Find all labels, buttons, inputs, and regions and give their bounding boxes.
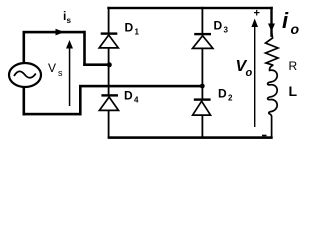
wire right rail upper xyxy=(202,7,204,35)
wire source left vertical bottom xyxy=(23,87,26,116)
wire right rail bottom xyxy=(202,115,204,139)
voltage arrow Vo xyxy=(251,19,258,128)
diode D1 xyxy=(99,32,118,48)
wire bottom rail xyxy=(108,136,273,139)
wire left rail D1 to node A xyxy=(108,48,110,65)
wire horizontal crossover to node B xyxy=(79,85,203,88)
wire top rail xyxy=(107,7,272,9)
wire right rail node B to D2 xyxy=(202,86,204,99)
node A junction dot xyxy=(107,62,112,67)
wire vertical up from bottom to cross wire xyxy=(79,85,82,115)
diode D3 xyxy=(193,33,213,49)
svg-text:D: D xyxy=(218,87,227,101)
resistor R xyxy=(266,33,279,65)
svg-text:V: V xyxy=(48,61,56,75)
svg-text:R: R xyxy=(289,59,298,73)
svg-text:L: L xyxy=(289,83,298,99)
diode D2 xyxy=(193,98,211,115)
diode D4 xyxy=(99,94,118,110)
current arrow i_s xyxy=(56,29,65,36)
svg-text:4: 4 xyxy=(134,96,139,105)
svg-text:o: o xyxy=(246,67,253,79)
svg-text:2: 2 xyxy=(228,94,233,103)
node B junction dot xyxy=(200,84,205,89)
voltage arrow Vs xyxy=(66,40,73,106)
svg-text:3: 3 xyxy=(224,26,229,35)
wire right rail D3 to node B xyxy=(202,48,204,86)
wire left rail bottom xyxy=(108,110,110,138)
ac source V1 xyxy=(9,63,41,87)
wire source bottom horizontal xyxy=(23,113,82,116)
wire vertical down to left bridge node xyxy=(83,31,86,66)
wire horizontal into node A xyxy=(83,63,110,66)
svg-text:D: D xyxy=(214,19,223,33)
svg-text:s: s xyxy=(67,16,72,25)
svg-text:+: + xyxy=(254,8,260,20)
wire left rail node A to D4 xyxy=(108,65,110,96)
wire source top horizontal xyxy=(23,31,86,34)
wire load vertical top xyxy=(270,7,272,37)
svg-text:D: D xyxy=(124,89,133,103)
svg-text:1: 1 xyxy=(135,28,140,37)
current arrow i_o xyxy=(268,24,275,32)
wire source left vertical top xyxy=(23,31,26,64)
svg-text:s: s xyxy=(58,68,63,78)
svg-text:i: i xyxy=(282,8,289,33)
wire left rail upper xyxy=(108,7,110,35)
label minus xyxy=(262,135,267,137)
svg-text:D: D xyxy=(125,21,134,35)
inductor L xyxy=(268,65,278,137)
svg-text:o: o xyxy=(291,21,300,37)
